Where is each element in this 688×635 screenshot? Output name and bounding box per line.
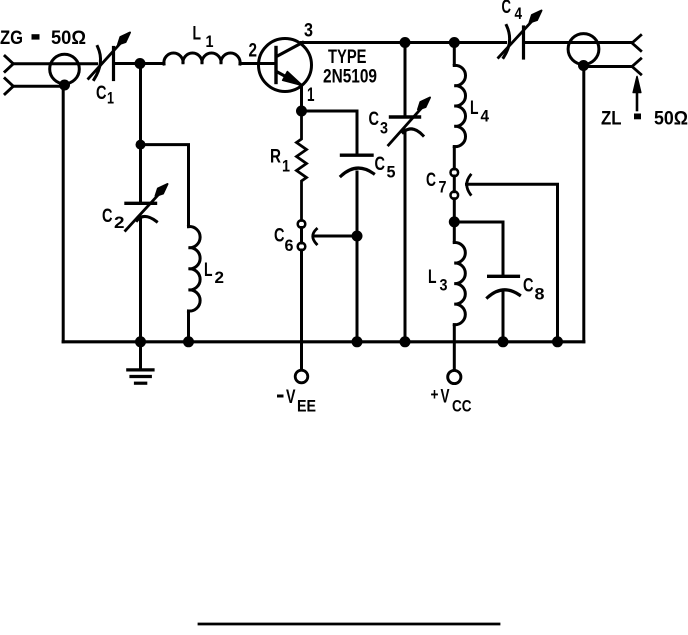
wire lower input (13, 85, 64, 88)
svg-text:L: L (470, 98, 479, 119)
svg-text:+: + (431, 385, 439, 404)
svg-text:5: 5 (387, 163, 396, 182)
wire pin1 to C5 branch (302, 111, 358, 155)
svg-text:2: 2 (215, 268, 225, 287)
svg-text:50Ω: 50Ω (51, 28, 86, 49)
node C5/C6 (352, 231, 363, 242)
svg-text:ZL: ZL (601, 109, 622, 130)
wire C4 to output (524, 41, 633, 44)
load circle ZL (568, 34, 599, 65)
node pin1 (296, 106, 307, 117)
label -VEE (277, 387, 316, 416)
capacitor C7 (feedthrough) (451, 169, 558, 342)
svg-text:3: 3 (380, 119, 388, 138)
capacitor C8 (488, 276, 520, 342)
node bus C2 (135, 336, 146, 347)
input arrow lower (5, 78, 13, 94)
svg-text:C: C (274, 226, 285, 247)
wire upper input (13, 62, 96, 65)
terminal -VEE (295, 370, 308, 383)
svg-text:1: 1 (107, 89, 114, 108)
svg-text:2N5109: 2N5109 (323, 67, 377, 88)
label ZG = 50ohm (0, 28, 86, 49)
svg-text:C: C (502, 0, 512, 18)
inductor L2 (189, 227, 201, 311)
svg-text:C: C (523, 276, 534, 297)
svg-text:1: 1 (307, 85, 315, 106)
svg-text:TYPE: TYPE (328, 47, 367, 68)
wire C6 to VEE (300, 250, 303, 370)
node bus C5 (352, 336, 363, 347)
svg-text:C: C (96, 83, 107, 104)
transistor Q1 (259, 39, 312, 112)
svg-text:3: 3 (304, 21, 313, 42)
output arrow lower (632, 59, 641, 75)
svg-text:2: 2 (249, 41, 258, 62)
inductor L3 (454, 242, 465, 324)
svg-text:6: 6 (285, 236, 294, 255)
input arrow upper (5, 56, 13, 72)
capacitor C5 (341, 155, 374, 176)
svg-text:CC: CC (452, 397, 472, 416)
svg-text:4: 4 (481, 107, 490, 126)
svg-text:L: L (204, 260, 213, 281)
svg-text:L: L (428, 267, 437, 288)
bottom rule (199, 623, 499, 626)
capacitor C6 (feedthrough) (298, 220, 357, 250)
label ZL = 50ohm (601, 109, 688, 130)
label +VCC (431, 385, 472, 416)
svg-text:50Ω: 50Ω (654, 109, 688, 130)
wire top (collector rail) (302, 41, 506, 44)
wire to C8 (454, 222, 503, 276)
capacitor C2 (126, 64, 168, 342)
node L3 top (449, 216, 460, 227)
wire left vertical (62, 86, 65, 342)
wire L2 bottom (187, 311, 190, 342)
generator circle ZG (50, 54, 80, 84)
node bus C7 (552, 336, 563, 347)
svg-text:C: C (369, 109, 380, 130)
svg-text:C: C (426, 170, 436, 191)
ground (128, 342, 153, 383)
svg-text:3: 3 (440, 276, 448, 295)
node top L4 (449, 37, 460, 48)
node A (C1 right) (135, 58, 146, 69)
svg-text:7: 7 (439, 178, 447, 197)
node top C3 (400, 37, 411, 48)
svg-text:V: V (286, 387, 296, 408)
bus (ground rail) (63, 340, 584, 343)
wire L1 to base (240, 62, 272, 65)
svg-text:EE: EE (297, 397, 316, 416)
capacitor C1 (89, 33, 131, 80)
svg-text:L: L (193, 24, 202, 45)
wire C5 bottom (356, 172, 359, 342)
wire to L2 (141, 145, 189, 227)
wire L3 to VCC (453, 325, 456, 370)
wire C7 to L3 (453, 199, 456, 243)
svg-text:4: 4 (515, 4, 523, 23)
node output bottom (578, 60, 589, 71)
capacitor C4 (499, 11, 542, 59)
svg-text:C: C (375, 154, 386, 175)
node input bottom (59, 80, 70, 91)
ZL current arrow (633, 77, 641, 111)
svg-text:V: V (441, 387, 450, 408)
terminal +VCC (448, 370, 461, 383)
inductor L4 (454, 43, 465, 170)
node bus C8 (498, 336, 509, 347)
resistor R1 (297, 111, 307, 221)
wire C1 to L1 (114, 62, 165, 65)
svg-text:ZG: ZG (0, 28, 23, 49)
node bus L2 (183, 336, 194, 347)
node bus C3 (400, 336, 411, 347)
svg-text:1: 1 (282, 157, 290, 176)
svg-text:2: 2 (114, 213, 125, 232)
capacitor C3 (389, 43, 431, 342)
svg-text:R: R (270, 147, 281, 168)
svg-text:1: 1 (206, 32, 214, 51)
inductor L1 (164, 53, 240, 64)
svg-text:8: 8 (535, 285, 545, 304)
node C2 top (136, 140, 146, 150)
svg-text:C: C (102, 206, 113, 227)
wire output lower (584, 65, 633, 68)
output arrow upper (632, 35, 641, 51)
wire output vertical (582, 66, 585, 342)
